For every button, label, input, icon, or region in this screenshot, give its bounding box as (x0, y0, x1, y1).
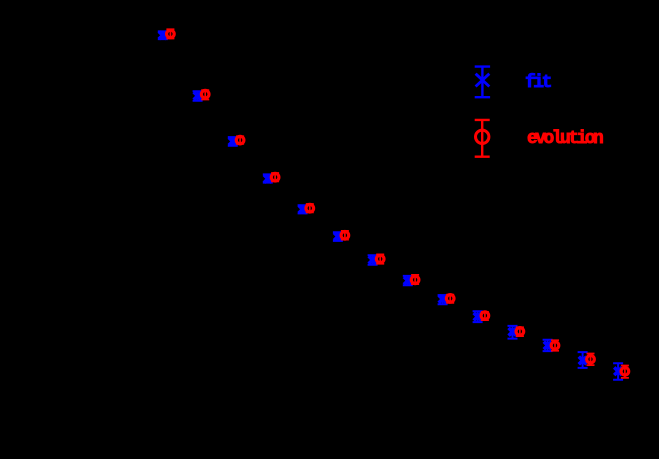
data point 10: red evolution error bar (481, 312, 489, 320)
data point 4: blue fit X symbol (264, 175, 272, 183)
data point 3: red evolution circle symbol (236, 136, 244, 144)
data point 12: red evolution error bar (551, 340, 559, 351)
data point 5: red evolution circle symbol (306, 204, 314, 212)
data point 9: blue fit error bar (438, 295, 448, 304)
data point 10: red evolution circle symbol (481, 312, 489, 320)
data point 1: red evolution error bar (166, 29, 174, 38)
data point 13: red evolution error bar (587, 354, 595, 366)
data point 3: blue fit error bar (228, 137, 238, 146)
data point 3: blue fit X symbol (229, 138, 237, 146)
data point 2: blue fit error bar (193, 91, 203, 101)
data point 5: red evolution error bar (306, 204, 314, 212)
data point 11: red evolution circle symbol (516, 328, 524, 336)
legend: blue fit sample error bar (475, 67, 490, 98)
data point 2: red evolution circle symbol (201, 90, 209, 98)
data point 1: blue fit error bar (158, 31, 168, 39)
data point 6: blue fit error bar (333, 232, 343, 241)
data point 8: red evolution error bar (411, 275, 419, 284)
data point 6: red evolution circle symbol (341, 232, 349, 240)
data point 2: red evolution error bar (201, 90, 209, 99)
data point 13: blue fit error bar (578, 352, 588, 368)
data point 7: red evolution circle symbol (376, 255, 384, 263)
data point 1: blue fit X symbol (159, 31, 167, 39)
data point 14: blue fit error bar (613, 363, 623, 380)
data point 3: red evolution error bar (236, 136, 244, 144)
data point 12: blue fit X symbol (544, 342, 552, 350)
data point 12: red evolution circle symbol (551, 342, 559, 350)
data point 12: blue fit error bar (543, 340, 553, 351)
svg-text:evolution: evolution (527, 129, 603, 149)
data point 7: red evolution error bar (376, 254, 384, 263)
data point 9: red evolution error bar (446, 295, 454, 303)
data point 4: red evolution circle symbol (271, 173, 279, 181)
data point 13: blue fit X symbol (579, 357, 587, 365)
data point 13: red evolution circle symbol (587, 355, 595, 363)
data point 10: blue fit X symbol (474, 313, 482, 321)
data point 14: red evolution circle symbol (621, 368, 629, 376)
data point 6: blue fit X symbol (334, 233, 342, 241)
data point 7: blue fit X symbol (369, 256, 377, 264)
data point 8: blue fit error bar (403, 276, 413, 285)
data point 5: blue fit error bar (298, 205, 308, 213)
data point 11: red evolution error bar (516, 327, 524, 336)
data point 9: red evolution circle symbol (446, 295, 454, 303)
data point 9: blue fit X symbol (439, 295, 447, 303)
data point 14: red evolution error bar (621, 366, 629, 378)
legend: blue fit sample X symbol (476, 74, 490, 87)
data point 7: blue fit error bar (368, 255, 378, 265)
data point 4: red evolution error bar (271, 173, 279, 181)
data point 8: blue fit X symbol (404, 277, 412, 285)
data point 14: blue fit X symbol (614, 367, 622, 375)
data point 10: blue fit error bar (473, 311, 483, 322)
legend: red evolution sample circle symbol (476, 130, 489, 143)
data point 11: blue fit error bar (508, 326, 518, 339)
svg-text:fit: fit (525, 73, 552, 93)
data point 5: blue fit X symbol (299, 205, 307, 213)
data point 4: blue fit error bar (263, 174, 273, 182)
data point 6: red evolution error bar (341, 231, 349, 240)
legend: red evolution sample error bar (475, 120, 490, 157)
data point 11: blue fit X symbol (509, 328, 517, 336)
data point 8: red evolution circle symbol (411, 276, 419, 284)
data point 2: blue fit X symbol (194, 92, 202, 100)
data point 1: red evolution circle symbol (167, 30, 175, 38)
